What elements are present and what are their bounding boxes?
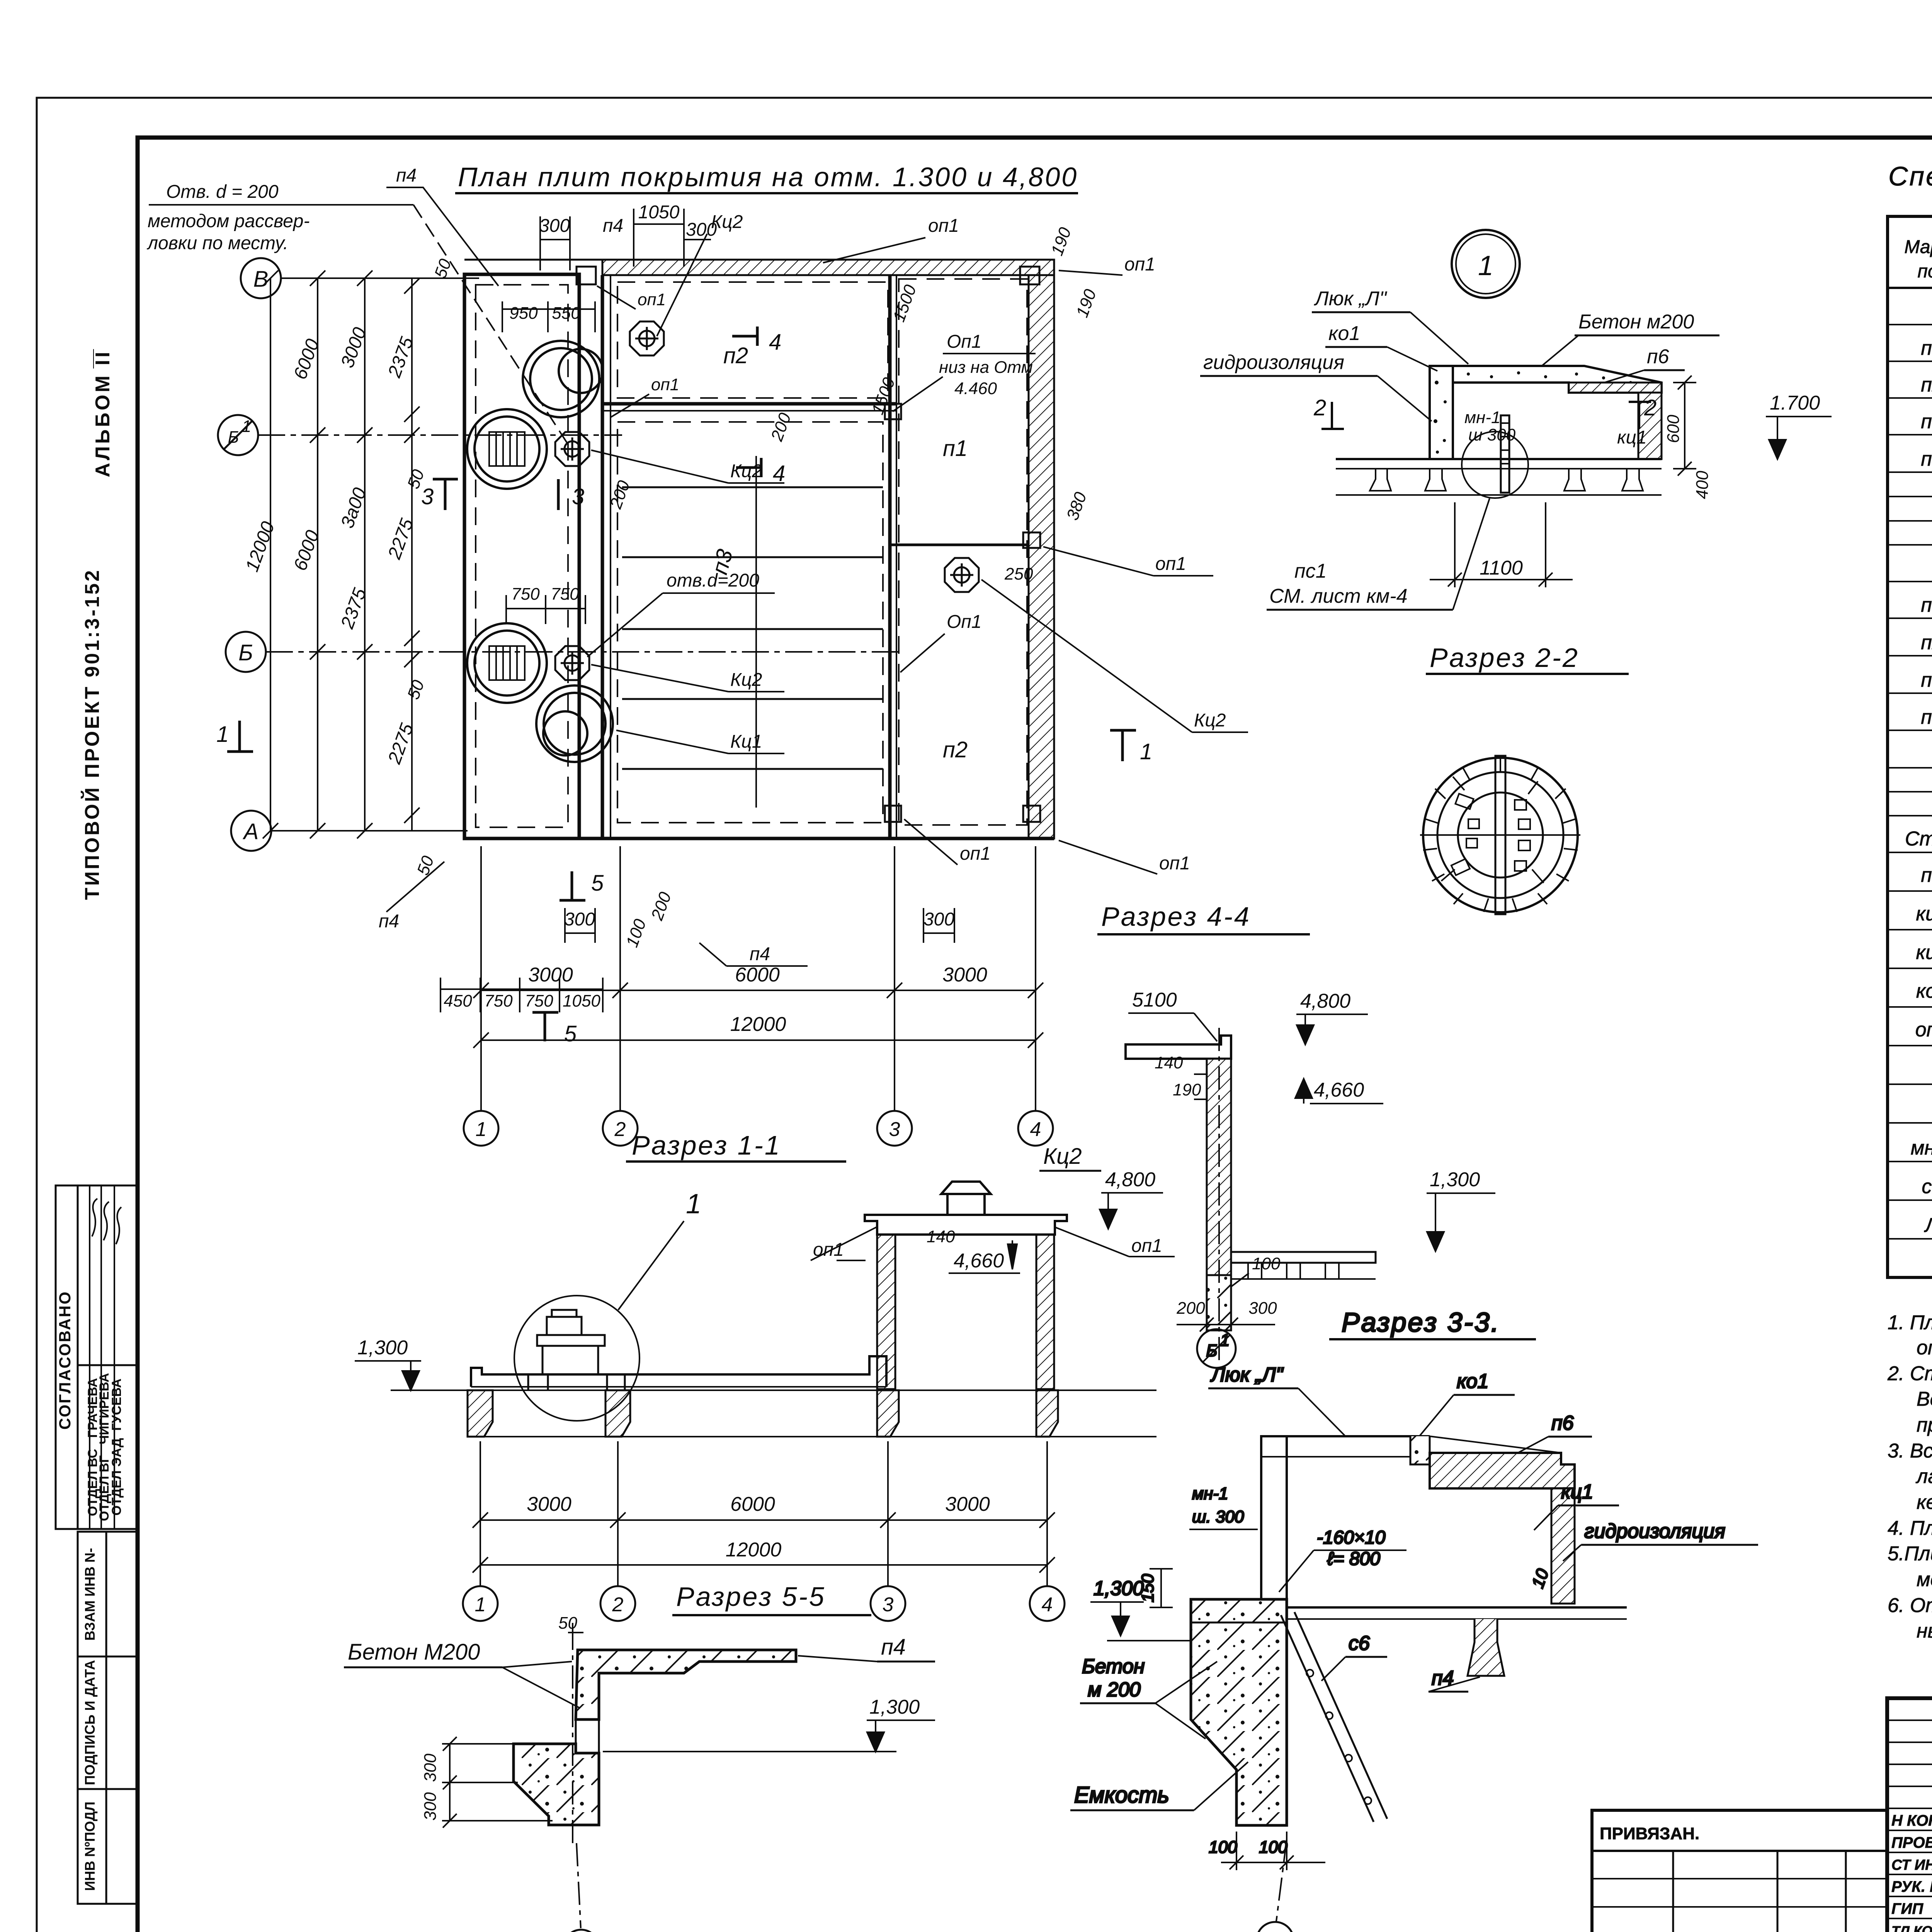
svg-text:Спецификация к схеме расположе: Спецификация к схеме расположения плит п… xyxy=(1888,161,1932,191)
svg-text:2. Стремянку С6 установить до: 2. Стремянку С6 установить до монтажа ко… xyxy=(1887,1362,1932,1385)
left foundation xyxy=(1191,1599,1287,1825)
svg-text:РУК. ГР: РУК. ГР xyxy=(1891,1878,1932,1895)
svg-text:кц2: кц2 xyxy=(1916,941,1932,964)
horizontal divider under P2 (double) xyxy=(602,402,896,406)
svg-text:Кц2: Кц2 xyxy=(711,212,743,232)
section 1-1 dims xyxy=(473,1441,1055,1586)
svg-text:ВЗАМ ИНВ N-: ВЗАМ ИНВ N- xyxy=(82,1548,98,1641)
svg-text:Кц2: Кц2 xyxy=(730,670,762,690)
svg-text:190: 190 xyxy=(1173,1080,1201,1099)
svg-text:4: 4 xyxy=(1030,1118,1041,1141)
svg-text:Кц2: Кц2 xyxy=(1043,1144,1082,1169)
svg-text:6000: 6000 xyxy=(735,964,780,986)
svg-text:250: 250 xyxy=(1004,565,1033,583)
svg-text:300: 300 xyxy=(539,216,570,236)
middle vertical wall (double) xyxy=(601,275,604,838)
section cut marks xyxy=(227,327,1136,1041)
svg-text:План плит покрытия на отм. 1.3: План плит покрытия на отм. 1.300 и 4,800 xyxy=(458,162,1078,192)
svg-text:п6: п6 xyxy=(1921,864,1932,886)
svg-text:СТ ИНЖЕН.: СТ ИНЖЕН. xyxy=(1891,1857,1932,1873)
svg-text:3: 3 xyxy=(572,484,584,509)
ticks xyxy=(263,270,420,838)
svg-text:п2: п2 xyxy=(723,343,748,368)
svg-text:1: 1 xyxy=(1140,739,1152,764)
svg-text:3000: 3000 xyxy=(527,1493,571,1515)
svg-text:ловки по месту.: ловки по месту. xyxy=(146,233,288,253)
svg-text:1: 1 xyxy=(216,722,229,747)
svg-text:300: 300 xyxy=(421,1753,440,1782)
svg-text:мн-1: мн-1 xyxy=(1911,1137,1932,1159)
svg-text:100: 100 xyxy=(1259,1838,1287,1857)
svg-text:оп1: оп1 xyxy=(651,375,679,394)
ladder diagonal xyxy=(1281,1612,1387,1822)
circular manhole plan detail 1 xyxy=(1070,161,1932,1932)
vertical wall hatched xyxy=(1207,1059,1231,1275)
svg-text:950: 950 xyxy=(509,304,538,323)
svg-text:1: 1 xyxy=(686,1189,701,1219)
supports under detail xyxy=(528,1374,625,1391)
svg-text:ко1: ко1 xyxy=(1916,980,1932,1002)
svg-text:4,800: 4,800 xyxy=(1105,1168,1155,1191)
dashed rect P3 area xyxy=(617,422,883,823)
svg-text:кц1: кц1 xyxy=(1916,903,1932,925)
svg-text:300: 300 xyxy=(923,909,954,930)
svg-text:п1: п1 xyxy=(943,436,968,461)
svg-text:750: 750 xyxy=(551,585,579,604)
svg-text:п2: п2 xyxy=(1921,374,1932,396)
svg-text:ш. 300: ш. 300 xyxy=(1192,1507,1244,1526)
signatures squiggles xyxy=(92,1199,121,1244)
thin horizontal rows left part xyxy=(1887,1720,1932,1932)
svg-text:Н КОНТР: Н КОНТР xyxy=(1891,1812,1932,1829)
svg-text:Кц2: Кц2 xyxy=(730,461,762,481)
svg-text:6. Отметка низа опорных подуше: 6. Отметка низа опорных подушек оп1 4,66… xyxy=(1888,1594,1932,1617)
vertical wall at col3 xyxy=(888,275,892,838)
svg-text:Бетон М200: Бетон М200 xyxy=(348,1639,480,1665)
svg-text:ГИП: ГИП xyxy=(1891,1900,1923,1917)
svg-text:гидроизоляция: гидроизоляция xyxy=(1584,1520,1725,1543)
svg-text:2: 2 xyxy=(614,1118,626,1141)
svg-text:п4: п4 xyxy=(396,165,417,186)
svg-text:ПОДПИСЬ И ДАТА: ПОДПИСЬ И ДАТА xyxy=(82,1660,98,1785)
svg-text:кц1: кц1 xyxy=(1617,427,1647,448)
svg-text:1: 1 xyxy=(1478,250,1493,281)
svg-text:-160×10: -160×10 xyxy=(1317,1527,1386,1548)
svg-text:200: 200 xyxy=(1176,1299,1205,1318)
svg-text:п2: п2 xyxy=(943,737,968,762)
svg-text:м 200: м 200 xyxy=(1088,1679,1141,1701)
svg-text:ТИПОВОЙ ПРОЕКТ 901:3-152: ТИПОВОЙ ПРОЕКТ 901:3-152 xyxy=(81,568,104,900)
svg-text:4. Площадку ПС1 установить до: 4. Площадку ПС1 установить до монтажных … xyxy=(1888,1517,1932,1539)
svg-text:300: 300 xyxy=(421,1792,440,1821)
svg-text:1: 1 xyxy=(1220,1331,1230,1350)
svg-text:5: 5 xyxy=(564,1021,577,1046)
svg-text:1,300: 1,300 xyxy=(869,1696,920,1718)
svg-text:2: 2 xyxy=(1313,395,1326,420)
1100 dim xyxy=(1430,502,1573,587)
row lines xyxy=(1888,325,1932,1239)
svg-text:мн-1: мн-1 xyxy=(1192,1484,1228,1503)
svg-text:Б: Б xyxy=(228,428,239,447)
floor slab xyxy=(1198,1606,1627,1609)
100 100 dims xyxy=(1221,1832,1325,1870)
svg-text:300: 300 xyxy=(1248,1299,1277,1318)
svg-text:3000: 3000 xyxy=(942,964,987,986)
svg-text:п3: п3 xyxy=(1921,410,1932,433)
svg-text:ИНВ NºПОДЛ: ИНВ NºПОДЛ xyxy=(82,1801,98,1891)
svg-text:п4: п4 xyxy=(881,1634,906,1660)
signature rows labels xyxy=(1891,1812,1932,1932)
svg-text:п6: п6 xyxy=(1647,345,1669,368)
svg-text:Стаканы, кольца и плиты: Стаканы, кольца и плиты xyxy=(1905,828,1932,850)
svg-text:3: 3 xyxy=(421,484,434,509)
svg-text:1: 1 xyxy=(1270,1930,1281,1932)
svg-text:Кц2: Кц2 xyxy=(1194,710,1226,731)
svg-text:п1: п1 xyxy=(1921,594,1932,616)
svg-text:Разрез 5-5: Разрез 5-5 xyxy=(676,1582,826,1612)
svg-text:оп1: оп1 xyxy=(638,290,666,309)
svg-text:Разрез 1-1: Разрез 1-1 xyxy=(632,1130,781,1160)
svg-text:гидроизоляция: гидроизоляция xyxy=(1203,351,1344,374)
ground line xyxy=(391,1389,1156,1391)
svg-text:3000: 3000 xyxy=(945,1493,990,1515)
svg-text:4,660: 4,660 xyxy=(954,1250,1004,1272)
svg-text:ке ХС-01 за 2раза.: ке ХС-01 за 2раза. xyxy=(1917,1491,1932,1514)
svg-text:2: 2 xyxy=(612,1594,624,1616)
svg-text:А: А xyxy=(243,819,259,844)
header bottom xyxy=(1888,287,1932,289)
svg-text:ПРОВЕР: ПРОВЕР xyxy=(1891,1834,1932,1851)
svg-text:ных.: ных. xyxy=(1917,1620,1932,1642)
svg-text:Оп1: Оп1 xyxy=(947,612,981,632)
leader from note to plan xyxy=(413,205,568,444)
axis circles V, B/1, B, A xyxy=(218,258,281,851)
svg-text:140: 140 xyxy=(1155,1053,1183,1072)
svg-text:СМ. лист км-4: СМ. лист км-4 xyxy=(1269,585,1408,607)
outer contour thick xyxy=(464,274,579,838)
svg-text:поз: поз xyxy=(1918,261,1932,282)
svg-text:п4: п4 xyxy=(1921,448,1932,470)
table grid xyxy=(1888,216,1932,1277)
svg-text:450: 450 xyxy=(444,992,472,1010)
svg-text:1.700: 1.700 xyxy=(1770,392,1820,414)
detail stand inside circle xyxy=(537,1310,605,1374)
svg-text:1: 1 xyxy=(476,1118,487,1141)
small octagon supports KC2 xyxy=(555,321,979,680)
svg-text:мн-1: мн-1 xyxy=(1464,408,1501,427)
2-2 body xyxy=(1336,366,1662,498)
svg-text:3: 3 xyxy=(883,1594,894,1616)
svg-text:4: 4 xyxy=(769,330,781,355)
dashed rect P2 top area xyxy=(617,282,888,398)
svg-text:Разрез 4-4: Разрез 4-4 xyxy=(1101,901,1251,932)
svg-text:п4: п4 xyxy=(379,911,399,932)
svg-text:св: св xyxy=(1922,1175,1932,1198)
svg-text:1. Плиты покрытия приварить к: 1. Плиты покрытия приварить к закладным … xyxy=(1888,1311,1932,1334)
grates in wells xyxy=(489,432,525,680)
svg-text:3000: 3000 xyxy=(528,964,573,986)
svg-text:Разрез 3-3.: Разрез 3-3. xyxy=(1342,1307,1500,1337)
svg-text:Емкость: Емкость xyxy=(1074,1782,1169,1808)
svg-text:Марка: Марка xyxy=(1904,237,1932,257)
bottom floor slabs (ribbed) xyxy=(1231,1252,1376,1263)
svg-text:Б: Б xyxy=(238,640,253,665)
svg-text:ℓ= 800: ℓ= 800 xyxy=(1327,1549,1380,1569)
right hatched wall xyxy=(1029,275,1054,838)
svg-text:1: 1 xyxy=(242,417,251,436)
vertical dimension chains left of plan xyxy=(263,270,420,838)
svg-text:12000: 12000 xyxy=(726,1539,782,1561)
svg-text:1100: 1100 xyxy=(1480,557,1523,579)
slabs below xyxy=(1336,458,1662,460)
svg-text:5: 5 xyxy=(591,871,604,896)
svg-text:4,660: 4,660 xyxy=(1314,1079,1364,1101)
svg-text:В: В xyxy=(253,267,269,292)
300 300 dims xyxy=(442,1737,553,1828)
axis dash-dot lines horizontal xyxy=(258,278,900,831)
svg-text:750: 750 xyxy=(525,992,553,1010)
svg-text:3. Все металлоконструкции, соп: 3. Все металлоконструкции, соприкасающие… xyxy=(1888,1440,1932,1462)
svg-text:400: 400 xyxy=(1693,471,1712,499)
top slab arm xyxy=(1126,1036,1231,1059)
slab + wall + foundation xyxy=(514,1627,796,1928)
svg-text:приварить к пластине -160×10 в: приварить к пластине -160×10 вместо поз.… xyxy=(1917,1414,1932,1436)
svg-text:4: 4 xyxy=(1042,1594,1053,1616)
main stamp frame xyxy=(1887,1698,1932,1932)
svg-text:Кц1: Кц1 xyxy=(730,731,762,752)
svg-text:1050: 1050 xyxy=(563,992,600,1010)
svg-text:оп1: оп1 xyxy=(1155,554,1186,574)
svg-text:50: 50 xyxy=(558,1614,577,1633)
svg-text:п3: п3 xyxy=(1921,669,1932,691)
svg-text:1,300: 1,300 xyxy=(1430,1168,1480,1191)
P1/P2 divider right strip xyxy=(890,544,1029,546)
chimney xyxy=(947,1194,985,1215)
svg-text:Б: Б xyxy=(1206,1341,1218,1360)
svg-text:Люк „Л": Люк „Л" xyxy=(1314,287,1388,310)
svg-text:Бетон: Бетон xyxy=(1082,1655,1145,1678)
svg-text:Оп1: Оп1 xyxy=(947,332,981,352)
svg-text:1,300: 1,300 xyxy=(357,1337,408,1359)
svg-text:1050: 1050 xyxy=(638,202,680,223)
svg-text:п1: п1 xyxy=(1921,337,1932,359)
svg-text:4,800: 4,800 xyxy=(1300,990,1350,1012)
approval table xyxy=(56,1185,138,1529)
svg-text:оп1: оп1 xyxy=(928,216,959,236)
svg-text:ко1: ко1 xyxy=(1457,1370,1488,1393)
placeholder groups populated below xyxy=(56,349,138,1904)
svg-text:2: 2 xyxy=(1644,395,1656,420)
svg-text:отв.d=200: отв.d=200 xyxy=(667,570,759,591)
right concrete slope + P6 slab xyxy=(1410,1436,1561,1453)
svg-text:с6: с6 xyxy=(1349,1632,1370,1655)
svg-text:АЛЬБОМ I̅I̅: АЛЬБОМ I̅I̅ xyxy=(92,349,114,477)
svg-text:100: 100 xyxy=(1252,1254,1281,1273)
svg-text:5100: 5100 xyxy=(1132,989,1177,1011)
svg-text:140: 140 xyxy=(927,1227,955,1246)
svg-text:600: 600 xyxy=(1664,415,1683,443)
svg-text:Л: Л xyxy=(1924,1214,1932,1236)
svg-text:Люк „Л": Люк „Л" xyxy=(1210,1364,1284,1386)
ladder bar xyxy=(1501,415,1509,493)
top hatched band xyxy=(602,260,1054,275)
svg-text:550: 550 xyxy=(552,304,580,323)
600 / 400 dims right xyxy=(1673,376,1696,476)
svg-text:оп1: оп1 xyxy=(1124,254,1155,275)
svg-text:ТЛ.КОНСТР.: ТЛ.КОНСТР. xyxy=(1891,1923,1932,1932)
svg-text:оп1: оп1 xyxy=(960,844,991,864)
svg-text:3: 3 xyxy=(889,1118,900,1141)
svg-text:оп1: оп1 xyxy=(1131,1236,1162,1256)
svg-text:опорных подушек: опорных подушек xyxy=(1917,1337,1932,1359)
lower left cells xyxy=(78,1532,138,1904)
svg-text:12000: 12000 xyxy=(730,1013,786,1036)
op1 pads small rects xyxy=(577,267,596,284)
svg-text:300: 300 xyxy=(564,909,595,930)
svg-text:оп1: оп1 xyxy=(1915,1019,1932,1041)
svg-text:Отв. d = 200: Отв. d = 200 xyxy=(166,182,279,202)
left wall column xyxy=(1261,1436,1287,1599)
svg-text:ПРИВЯЗАН.: ПРИВЯЗАН. xyxy=(1600,1824,1699,1843)
A circle under 5-5 xyxy=(563,1930,599,1932)
right tall box (4.800 part) xyxy=(865,1182,1067,1389)
svg-text:п4: п4 xyxy=(1921,706,1932,728)
svg-text:СОГЛАСОВАНО: СОГЛАСОВАНО xyxy=(56,1291,74,1430)
left attachment table xyxy=(1592,1810,1887,1932)
column axis circles 1-4 under plan xyxy=(464,1111,1053,1146)
svg-text:Верхнюю часть стремянки обреза: Верхнюю часть стремянки обрезать на 1150… xyxy=(1917,1388,1932,1410)
low slab at 1.300 xyxy=(391,1356,1156,1437)
svg-text:ко1: ко1 xyxy=(1328,322,1360,345)
svg-text:1: 1 xyxy=(475,1594,486,1616)
svg-text:5.Плиты покрытия на отм. 4,800: 5.Плиты покрытия на отм. 4,800 устанавли… xyxy=(1888,1543,1932,1565)
svg-text:п6: п6 xyxy=(1551,1412,1574,1434)
well circles KC2/KC1 in plan strip xyxy=(467,341,613,762)
svg-text:6000: 6000 xyxy=(730,1493,775,1515)
bottom edge xyxy=(464,837,1054,840)
svg-text:1,300: 1,300 xyxy=(1094,1577,1144,1600)
svg-text:4: 4 xyxy=(773,461,785,486)
dashed inner rect of P4 strip xyxy=(476,285,568,827)
foundation block xyxy=(1207,1275,1231,1330)
svg-text:100: 100 xyxy=(1209,1838,1237,1857)
svg-text:4.460: 4.460 xyxy=(954,379,997,398)
top slab with lips xyxy=(865,1215,1067,1235)
slab joint lines in P3 xyxy=(622,486,883,488)
svg-text:оп1: оп1 xyxy=(1159,853,1190,874)
svg-text:лаком ХС -76 (Гост 9355 -60): лаком ХС -76 (Гост 9355 -60) за 3раза на… xyxy=(1915,1465,1932,1488)
svg-text:п2: п2 xyxy=(1921,631,1932,654)
svg-text:п4: п4 xyxy=(603,216,623,236)
svg-text:750: 750 xyxy=(511,585,540,604)
3-3 body xyxy=(1191,1436,1627,1921)
svg-text:п4: п4 xyxy=(750,944,770,964)
svg-text:Бетон м200: Бетон м200 xyxy=(1578,311,1694,333)
svg-text:кц1: кц1 xyxy=(1561,1481,1593,1503)
2 cut marks xyxy=(1321,402,1651,429)
dashed rect right strip P1/P2 xyxy=(899,279,1027,825)
svg-text:монорельса (см. лист км -4): монорельса (см. лист км -4) xyxy=(1917,1568,1932,1591)
svg-text:750: 750 xyxy=(484,992,513,1010)
svg-text:пс1: пс1 xyxy=(1294,560,1327,582)
svg-text:ш 300: ш 300 xyxy=(1468,425,1516,444)
centre line of P3 vertical xyxy=(755,456,757,808)
svg-text:низ на Отм: низ на Отм xyxy=(939,358,1033,377)
svg-text:методом рассвер-: методом рассвер- xyxy=(148,211,310,231)
svg-text:Разрез 2-2: Разрез 2-2 xyxy=(1430,643,1579,673)
hatched wall stubs xyxy=(468,1390,493,1437)
svg-text:ОТДЕЛ ЭАД ГУСЕВА: ОТДЕЛ ЭАД ГУСЕВА xyxy=(109,1379,124,1516)
section view Razrez 2-2 with detail circle 1 xyxy=(1452,230,1520,298)
